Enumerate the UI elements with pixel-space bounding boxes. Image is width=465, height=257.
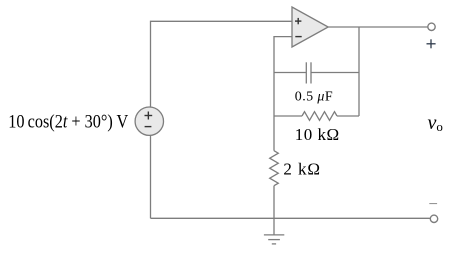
svg-text:10 kΩ: 10 kΩ [295,125,340,144]
svg-text:vo: vo [428,112,443,134]
svg-text:0.5 μF: 0.5 μF [295,89,333,104]
svg-text:10 cos(2t + 30°) V: 10 cos(2t + 30°) V [8,110,128,131]
svg-text:2 kΩ: 2 kΩ [283,160,320,179]
